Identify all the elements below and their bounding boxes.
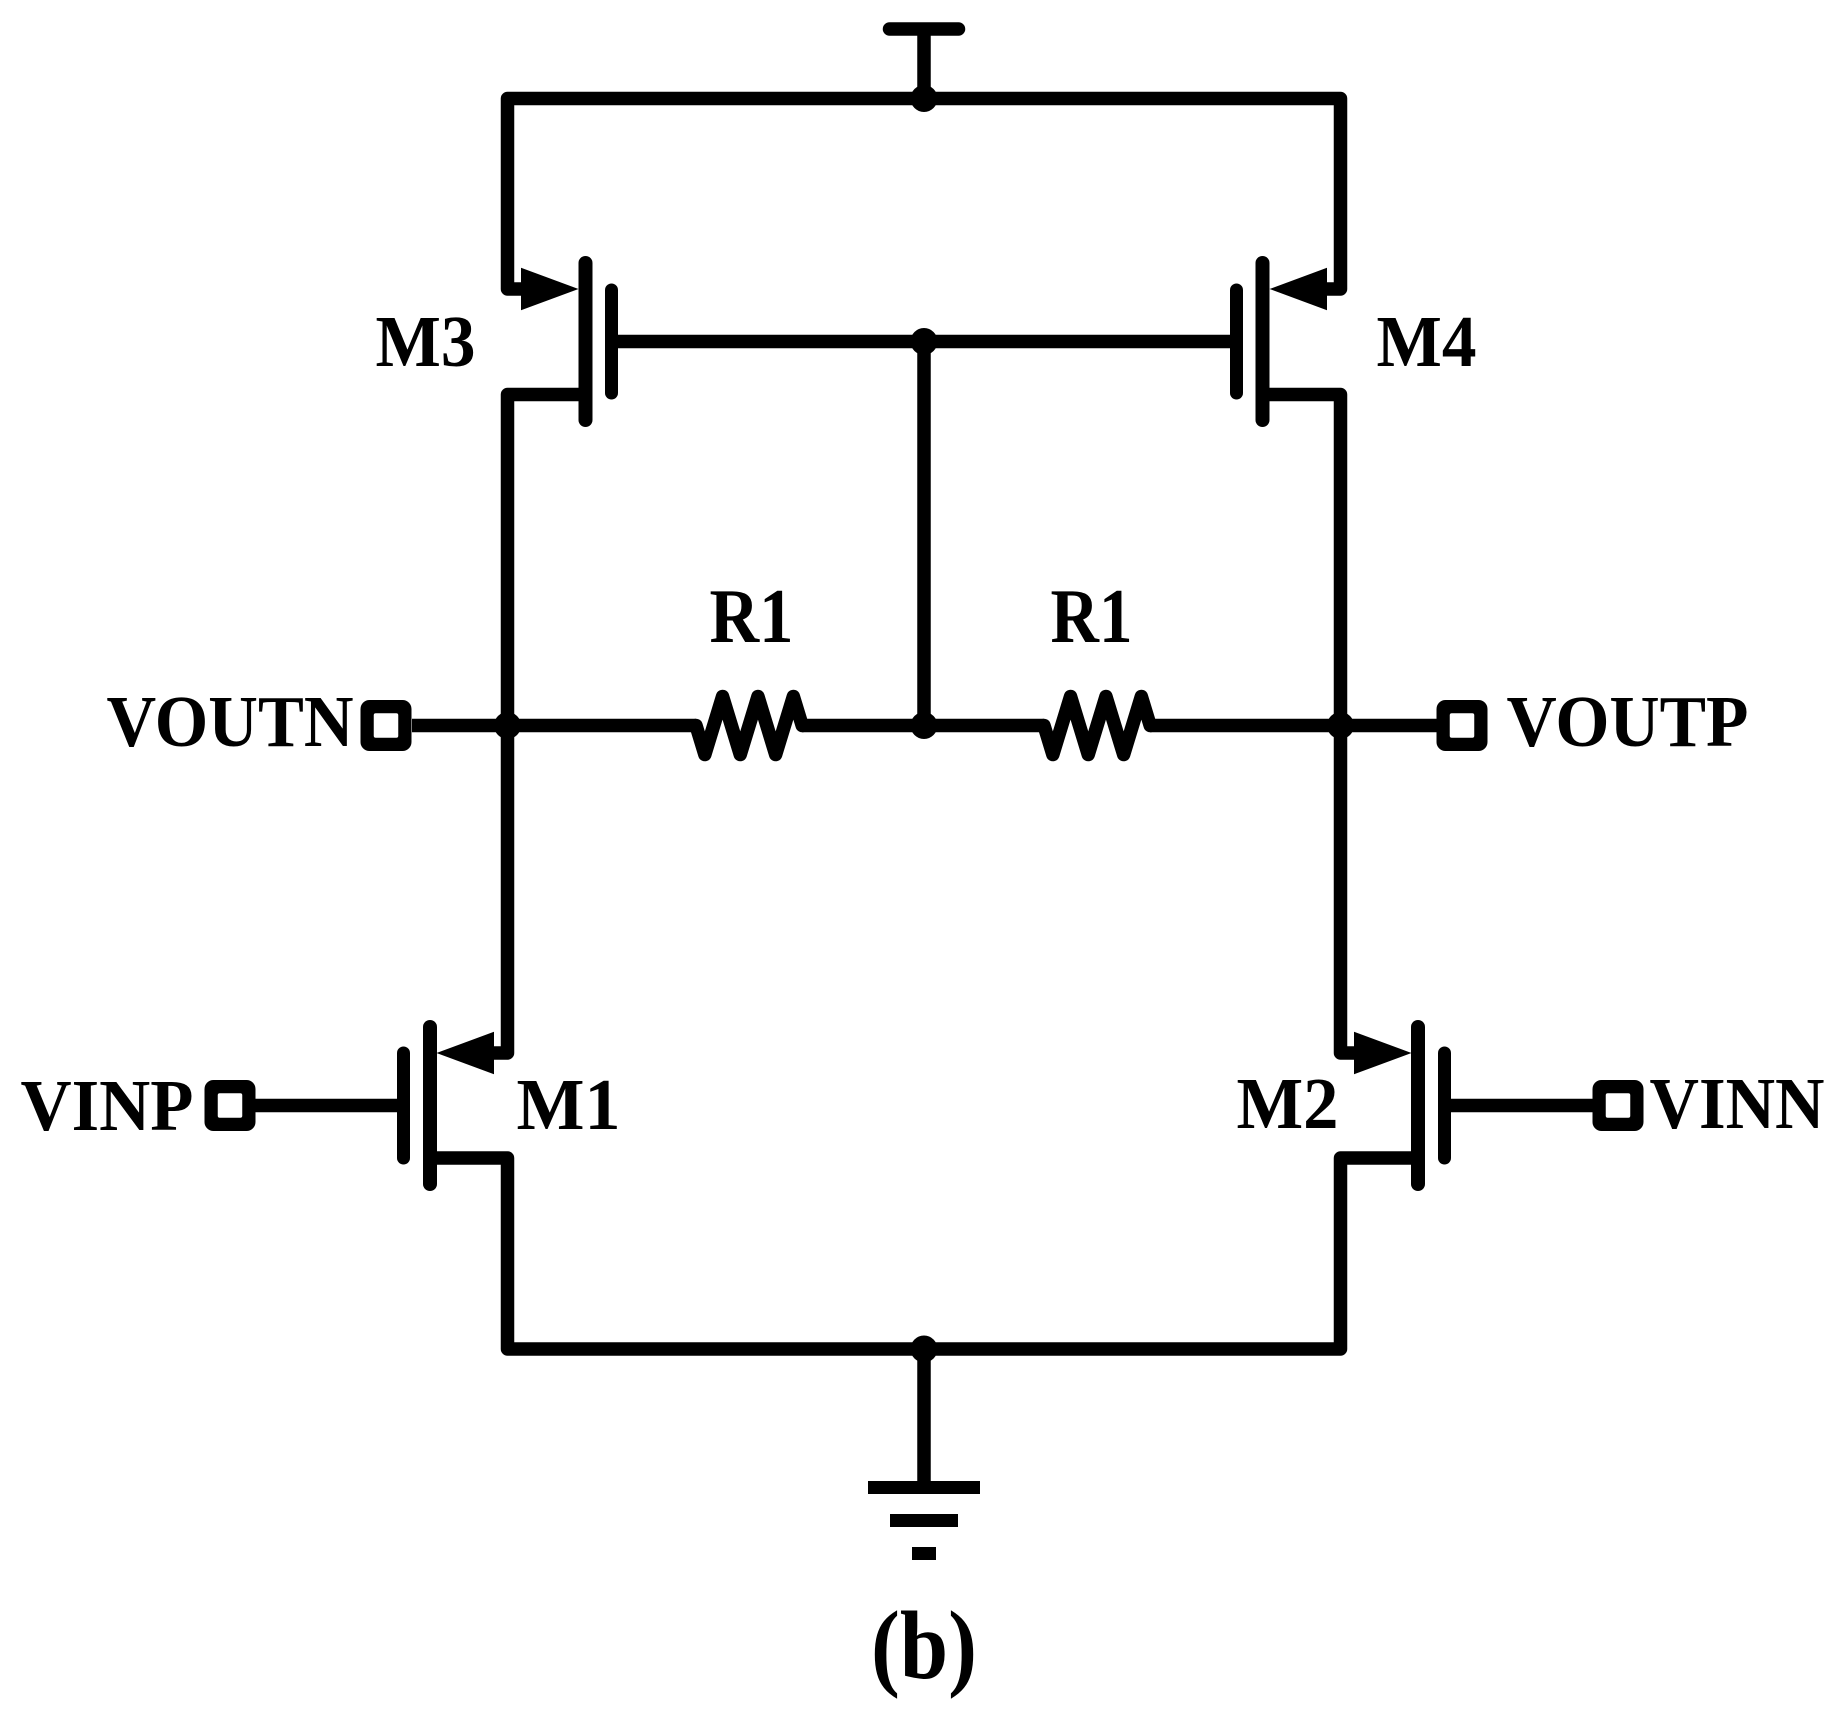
node VDD junction dot [911, 85, 938, 112]
svg-text:R1: R1 [1051, 573, 1133, 659]
wire between R1 and center node [802, 719, 1044, 733]
ground bar 2 [890, 1514, 958, 1527]
svg-text:R1: R1 [710, 573, 794, 659]
ground bar 3 [912, 1547, 936, 1560]
wire VOUTN lead [412, 719, 696, 733]
transistor M3 arrow [521, 268, 579, 311]
svg-text:M2: M2 [1237, 1063, 1339, 1144]
transistor M2 gate bar [1438, 1053, 1451, 1158]
wire M4 drain to output node [1263, 395, 1341, 726]
wire M1/M2 sources and tail rail [430, 1158, 1418, 1349]
node tail junction dot [911, 1336, 938, 1363]
transistor M4 channel bar [1256, 263, 1270, 420]
port VOUTN square [361, 700, 412, 751]
wire VINP gate lead [255, 1099, 404, 1113]
svg-text:M4: M4 [1377, 301, 1477, 382]
transistor M3 channel bar [579, 263, 593, 420]
node gate junction dot [911, 328, 938, 355]
svg-text:M1: M1 [517, 1064, 621, 1145]
wire VINN gate lead [1445, 1099, 1594, 1113]
node VOUTP junction dot [1327, 712, 1354, 739]
resistor R1 left zigzag [696, 697, 802, 755]
transistor M1 channel bar [423, 1027, 437, 1184]
port VINN square [1593, 1080, 1644, 1131]
wire R to VOUTP lead [1150, 719, 1437, 733]
svg-text:VINP: VINP [21, 1065, 194, 1146]
transistor M2 channel bar [1411, 1027, 1425, 1184]
svg-text:VINN: VINN [1650, 1063, 1825, 1144]
transistor M1 arrow [437, 1032, 495, 1075]
wire right branch to M2 drain [1341, 726, 1359, 1054]
port VOUTP square [1437, 700, 1488, 751]
svg-text:(b): (b) [871, 1592, 977, 1699]
resistor R1 right zigzag [1044, 697, 1150, 755]
transistor M1 gate bar [397, 1053, 410, 1158]
svg-text:M3: M3 [376, 301, 476, 382]
transistor M4 gate bar [1230, 290, 1243, 393]
svg-text:VOUTN: VOUTN [107, 681, 354, 762]
node center output dot [911, 712, 938, 739]
VDD stem wire [917, 29, 931, 99]
VDD bar [890, 22, 959, 36]
transistor M3 gate bar [605, 290, 618, 393]
wire center vertical [917, 342, 931, 726]
transistor M4 arrow [1270, 268, 1328, 311]
wire top rail with M3/M4 source bends [508, 99, 1341, 290]
wire M3 gate lead [612, 335, 925, 349]
wire ground stem [917, 1349, 931, 1481]
svg-text:VOUTP: VOUTP [1507, 681, 1749, 762]
port VINP square [205, 1080, 256, 1131]
wire M3 drain to output node [508, 395, 586, 726]
transistor M2 arrow [1354, 1032, 1412, 1075]
ground bar 1 [868, 1481, 980, 1494]
wire left branch to M1 drain [490, 726, 508, 1054]
wire M4 gate lead [924, 335, 1237, 349]
node VOUTN junction dot [494, 712, 521, 739]
